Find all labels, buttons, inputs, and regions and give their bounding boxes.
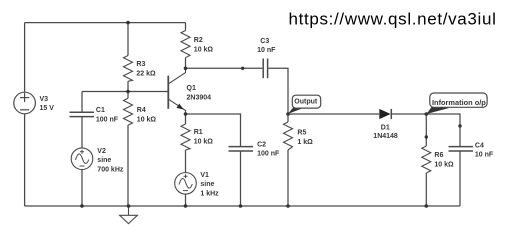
svg-text:R3: R3 [136,61,145,68]
wire R2 top lead [185,23,187,31]
svg-text:V3: V3 [40,96,49,103]
wire V2 bottom lead [81,170,83,207]
svg-text:10 kΩ: 10 kΩ [194,139,214,146]
wire R6 bottom lead [425,173,427,206]
svg-text:sine: sine [97,157,111,164]
capacitor C1 [70,112,95,116]
wire C1 top lead [81,92,83,113]
wire R2 bottom lead [185,58,187,69]
wire R6 top lead [425,114,427,146]
svg-text:R1: R1 [194,129,203,136]
ac source V1 [175,173,197,195]
svg-text:C4: C4 [475,142,484,149]
wire V1 bottom lead [185,195,187,207]
wire C4 bottom lead [459,151,461,206]
svg-text:2N3904: 2N3904 [187,95,212,102]
node junction bottom R6 [425,204,429,208]
svg-text:10 nF: 10 nF [257,47,276,54]
svg-text:R2: R2 [194,37,203,44]
svg-text:sine: sine [200,181,214,188]
node junction bottom V2 [80,204,84,208]
capacitor C4 [449,147,474,151]
svg-text:10 nF: 10 nF [475,152,494,159]
node junction collector [184,67,188,71]
wire base rail [82,91,168,93]
capacitor C3 [263,59,267,79]
svg-text:V2: V2 [97,148,106,155]
wire bottom rail [25,205,460,207]
svg-text:Information o/p: Information o/p [432,98,486,107]
svg-text:C3: C3 [260,38,269,45]
svg-text:22 kΩ: 22 kΩ [136,71,156,78]
svg-text:D1: D1 [381,125,390,132]
svg-text:10 kΩ: 10 kΩ [137,116,157,123]
wire R3 top lead [127,23,129,56]
resistor R6 [422,146,431,173]
node junction top R3 [126,21,130,25]
svg-text:C2: C2 [257,141,266,148]
wire R1 top lead [185,114,187,124]
svg-text:Output: Output [294,99,318,106]
resistor R2 [181,31,190,58]
svg-text:10 kΩ: 10 kΩ [194,46,214,53]
svg-text:100 nF: 100 nF [257,151,280,158]
diode D1 [379,109,391,119]
node junction base divider [126,90,130,94]
node marker collector rail [241,67,244,70]
wire R5 bottom lead [287,150,289,206]
node marker R6 top [425,135,428,138]
svg-text:1 kHz: 1 kHz [200,191,219,198]
wire R4 bottom lead [127,125,129,206]
resistor R4 [124,98,133,125]
ground [120,206,138,224]
wire R1-V1 lead [185,150,187,172]
svg-text:15 V: 15 V [40,105,55,112]
wire C2 bottom lead [240,151,242,206]
node junction bottom V1 [184,204,188,208]
node junction D1 out [425,112,429,116]
svg-text:R4: R4 [137,107,146,114]
svg-text:100 nF: 100 nF [96,117,119,124]
svg-text:1N4148: 1N4148 [373,133,398,140]
node marker C4 top [458,124,461,127]
svg-text:1 kΩ: 1 kΩ [297,139,313,146]
wire top rail [25,22,186,24]
capacitor C2 [229,147,254,151]
resistor R5 [284,122,293,150]
wire C1-V2 lead [81,117,83,149]
wire collector rail [186,67,263,69]
wire R5 top to D1 anode [288,113,379,115]
transistor Q1 [168,68,185,114]
wire D1 cathode to C4 [391,114,460,146]
node junction bottom R5 [286,204,290,208]
svg-text:C1: C1 [96,107,105,114]
node junction emitter [184,112,188,116]
wire left rail upper [24,23,26,93]
node junction bottom C2 [239,204,243,208]
wire C3 right to R5 [268,68,288,122]
svg-text:https://www.qsl.net/va3iul: https://www.qsl.net/va3iul [289,10,497,29]
callout Output [288,95,321,114]
node junction R5 top [286,112,290,116]
wire emitter rail to C2 [186,114,241,146]
wire R3 bottom lead [127,81,129,91]
resistor R3 [124,56,133,82]
node junction bottom ground [127,204,131,208]
svg-text:10 kΩ: 10 kΩ [434,162,454,169]
wire R4 top lead [127,92,129,99]
svg-text:700 kHz: 700 kHz [97,166,124,173]
callout Information o/p [427,93,488,114]
svg-text:V1: V1 [200,172,209,179]
wire left rail lower [24,114,26,207]
svg-text:R6: R6 [434,152,443,159]
svg-text:R5: R5 [297,130,306,137]
svg-text:Q1: Q1 [187,85,196,92]
ac source V2 [71,148,93,170]
dc source V3 [14,92,36,114]
resistor R1 [181,124,190,150]
